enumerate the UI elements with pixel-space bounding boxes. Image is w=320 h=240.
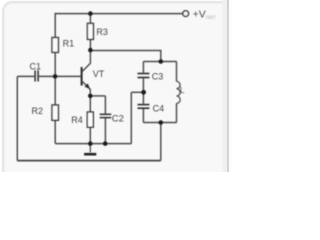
node emitter [88,94,93,99]
wire R3 column upper [89,14,91,24]
wire left riser [16,76,18,160]
wire R4 column upper [89,96,91,112]
svg-text:L: L [180,85,185,95]
svg-text:C1: C1 [30,61,42,71]
wire L column lower [176,103,178,122]
wire C2 column upper [104,96,106,114]
svg-text:C2: C2 [112,114,124,125]
transistor VT collector lead [82,51,91,72]
transistor VT emitter lead [82,81,91,96]
right divider line [227,0,229,172]
node C2 ground [103,141,108,146]
svg-text:R2: R2 [32,106,44,116]
wire tank bottom riser [160,123,162,161]
wire R3 column lower [89,39,91,50]
wire inner ground segment [55,143,131,145]
svg-text:R1: R1 [63,39,75,49]
inductor L coil [177,81,181,103]
svg-text:VT: VT [93,69,105,79]
ground bar [84,153,96,156]
terminal +V circle [183,11,189,17]
node R4 ground [88,141,93,146]
node collector [88,48,93,53]
wire emitter to C2 column [90,95,105,97]
node tank midpoint [141,90,146,95]
transistor VT base bar [81,67,83,86]
transistor VT emitter arrow [85,83,91,89]
wire R2 column upper [54,76,56,105]
resistor R3 [87,23,93,39]
node tank bottom [159,120,164,125]
capacitor C4 [138,105,150,109]
node tank top [159,59,164,64]
svg-text:C3: C3 [152,71,164,81]
node R3 top [88,11,93,16]
wire base node to transistor base [55,75,80,77]
wire L column upper [176,62,178,82]
resistor R2 [52,105,58,120]
capacitor C1 [35,70,38,81]
wire left input segment [17,75,34,77]
ground stub [89,144,91,153]
wire R1 column upper [54,13,56,38]
svg-text:C4: C4 [153,103,165,113]
wire C4 column lower [142,109,144,123]
resistor R4 [87,112,93,127]
page background [0,0,232,172]
node base [53,74,58,79]
wire tank midpoint tap [131,91,143,93]
wire tank bottom rail [143,122,176,124]
wire C2 column lower [104,118,106,143]
wire R1 column lower to base node [54,52,56,76]
wire feedback riser [130,92,132,143]
svg-text:R4: R4 [71,115,83,125]
wire C3/C4 mid column [142,78,144,104]
wire R2 column lower [54,120,56,143]
wire collector to tank with jog down [90,51,160,62]
wire C3 column upper [142,62,144,73]
capacitor C2 [100,114,112,117]
svg-text:R3: R3 [96,27,108,37]
wire R4 column lower [89,127,91,143]
resistor R1 [52,38,58,53]
capacitor C3 [138,74,150,78]
right sidebar area [223,0,229,172]
wire tank top rail [143,61,176,63]
wire top rail [55,13,182,15]
wire C1 to base node [39,75,55,77]
